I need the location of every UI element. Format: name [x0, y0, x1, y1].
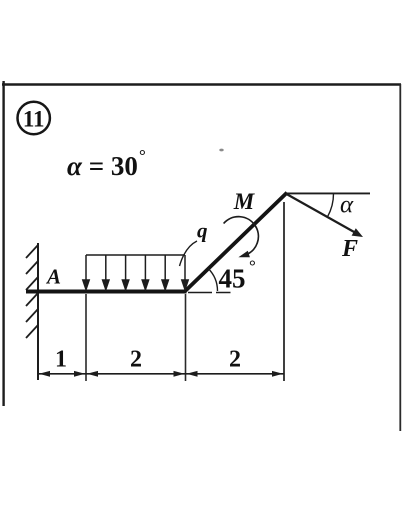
moment label M — [233, 189, 256, 214]
45 degree angle arc — [208, 268, 217, 291]
frame top border — [2, 83, 401, 86]
label alpha = 30 deg — [67, 146, 146, 181]
svg-text:A: A — [45, 265, 61, 289]
svg-text:45: 45 — [219, 264, 246, 294]
force F vector — [287, 194, 364, 237]
svg-text:11: 11 — [23, 107, 45, 132]
svg-text:F: F — [341, 236, 358, 262]
svg-text:M: M — [233, 189, 256, 214]
svg-text:q: q — [197, 219, 208, 243]
frame right border — [399, 84, 401, 431]
svg-text:1: 1 — [55, 347, 67, 373]
svg-text:2: 2 — [229, 347, 241, 373]
extension line from peak — [283, 202, 285, 381]
distributed load q top line — [86, 254, 185, 256]
45 degree reference line — [188, 292, 231, 294]
svg-text:°: ° — [249, 257, 256, 276]
dimension line — [38, 373, 284, 375]
problem number badge 11 — [18, 102, 50, 134]
dimension label 1 — [55, 347, 67, 373]
alpha angle arc — [328, 193, 334, 216]
beam inclined member — [184, 193, 287, 292]
node A label — [45, 265, 61, 289]
svg-text:2: 2 — [130, 347, 142, 373]
extension line at load start — [85, 294, 87, 381]
dimension label 2 (right) — [229, 347, 241, 373]
extension line at bend — [185, 294, 187, 381]
alpha angle label — [340, 192, 354, 219]
wall hatching — [26, 245, 38, 338]
speck artifact — [219, 149, 223, 152]
horizontal reference line at peak — [286, 192, 370, 194]
45 degree label — [219, 257, 256, 294]
dimension label 2 (left) — [130, 347, 142, 373]
dimension arrowheads — [39, 371, 283, 377]
force label F — [341, 236, 358, 262]
fixed support wall line — [37, 243, 39, 380]
beam horizontal member — [26, 290, 187, 294]
frame left border — [2, 81, 4, 406]
moment arc arrow — [224, 217, 259, 258]
load label q — [197, 219, 208, 243]
svg-text:α: α — [340, 192, 354, 219]
svg-text:°: ° — [139, 146, 146, 165]
leader line for q — [180, 241, 198, 266]
distributed load arrows — [83, 255, 188, 290]
svg-text:α = 30: α = 30 — [67, 151, 138, 181]
